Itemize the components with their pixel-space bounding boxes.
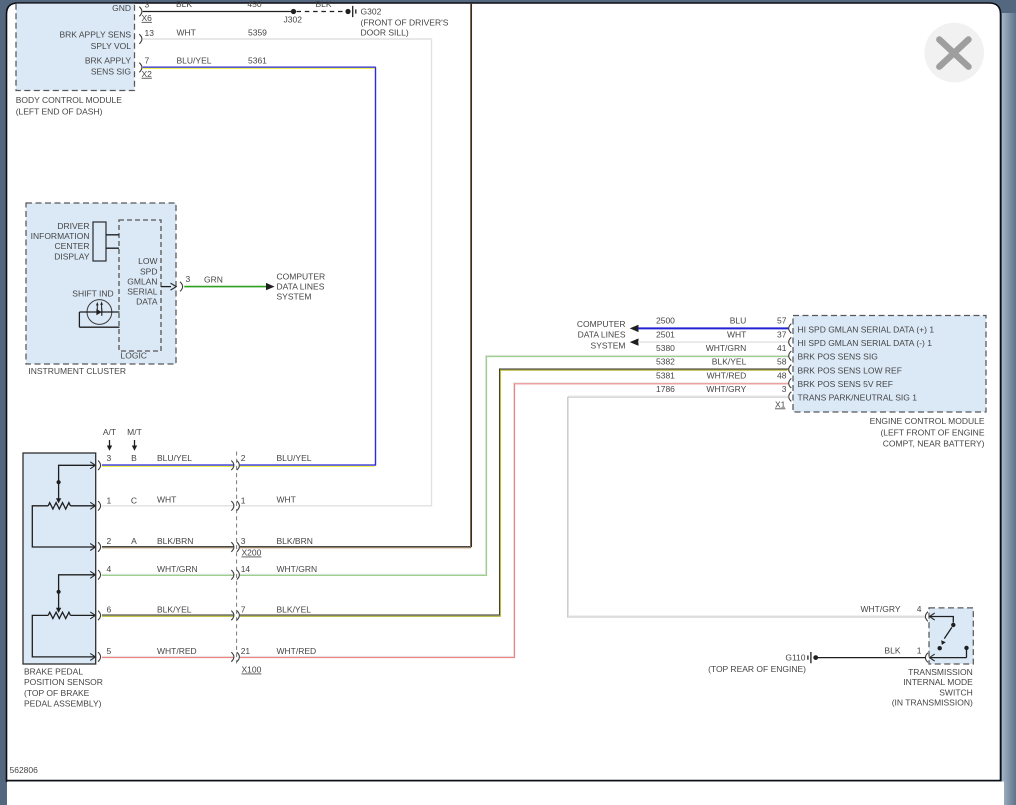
svg-text:X100: X100 bbox=[242, 665, 262, 675]
svg-text:DATA: DATA bbox=[136, 297, 158, 307]
svg-text:5381: 5381 bbox=[656, 370, 675, 380]
svg-text:HI SPD GMLAN SERIAL DATA (+) 1: HI SPD GMLAN SERIAL DATA (+) 1 bbox=[798, 324, 935, 334]
svg-text:BRK POS SENS SIG: BRK POS SENS SIG bbox=[798, 352, 878, 362]
svg-text:A: A bbox=[131, 536, 137, 546]
splice J302 bbox=[291, 9, 296, 14]
X200 pin 1 connector arcs bbox=[231, 495, 296, 511]
BCM pin 3 connector X6 bbox=[139, 0, 152, 23]
svg-text:4: 4 bbox=[107, 564, 112, 574]
svg-text:3: 3 bbox=[782, 384, 787, 394]
svg-text:2: 2 bbox=[107, 536, 112, 546]
svg-text:41: 41 bbox=[777, 343, 787, 353]
cluster pin 3 connector bbox=[171, 274, 191, 291]
ECM pin 58 connector (wire 5382 BLK/YEL) bbox=[656, 357, 902, 376]
svg-text:BLK/YEL: BLK/YEL bbox=[157, 604, 192, 614]
wire BLK G110 to transmission pin 1 bbox=[818, 657, 925, 659]
inline connector X200/X100 dashed body bbox=[236, 452, 238, 664]
svg-text:LOGIC: LOGIC bbox=[121, 351, 147, 361]
svg-text:COMPUTER: COMPUTER bbox=[277, 271, 326, 281]
svg-text:J302: J302 bbox=[284, 14, 303, 24]
svg-text:B: B bbox=[131, 453, 137, 463]
sensor pin 4 row WHT/GRN bbox=[90, 564, 197, 580]
svg-text:58: 58 bbox=[777, 357, 787, 367]
svg-text:WHT: WHT bbox=[177, 27, 196, 37]
svg-text:5359: 5359 bbox=[248, 27, 267, 37]
svg-text:2500: 2500 bbox=[656, 316, 675, 326]
svg-text:BLK: BLK bbox=[315, 0, 331, 9]
svg-text:CENTER: CENTER bbox=[55, 241, 90, 251]
logic sub-block bbox=[119, 220, 161, 361]
X100 pin 7 connector arcs bbox=[231, 604, 311, 620]
svg-text:6: 6 bbox=[107, 604, 112, 614]
body control module (BCM) box bbox=[16, 3, 135, 117]
potentiometer 2 (brake pedal position sensor M/T) bbox=[32, 575, 95, 657]
engine control module (ECM) box bbox=[793, 316, 986, 449]
svg-text:LOW: LOW bbox=[138, 256, 157, 266]
wire WHT/RED X100 pin21 to ECM pin 48 bbox=[240, 383, 789, 658]
transmission internal mode switch box bbox=[892, 608, 974, 708]
svg-text:SHIFT IND: SHIFT IND bbox=[72, 289, 113, 299]
X200 pin 14 connector arcs bbox=[231, 564, 317, 580]
svg-text:5380: 5380 bbox=[656, 343, 675, 353]
svg-text:BLU/YEL: BLU/YEL bbox=[157, 453, 192, 463]
wire BLK/YEL X100 pin7 to ECM pin 58 bbox=[240, 369, 789, 616]
sensor pin 1 row (C) WHT bbox=[90, 495, 176, 511]
svg-text:14: 14 bbox=[241, 564, 251, 574]
svg-text:DATA LINES: DATA LINES bbox=[277, 282, 325, 292]
svg-text:5382: 5382 bbox=[656, 357, 675, 367]
svg-text:21: 21 bbox=[241, 646, 251, 656]
svg-text:BLK/YEL: BLK/YEL bbox=[712, 357, 747, 367]
svg-text:GND: GND bbox=[112, 3, 131, 13]
arrow to computer data lines (row 2501) bbox=[630, 338, 639, 345]
transmission pin 1 connector bbox=[884, 645, 934, 662]
svg-text:BLU/YEL: BLU/YEL bbox=[177, 55, 212, 65]
svg-text:TRANS PARK/NEUTRAL SIG 1: TRANS PARK/NEUTRAL SIG 1 bbox=[798, 393, 918, 403]
svg-text:(LEFT FRONT OF ENGINE: (LEFT FRONT OF ENGINE bbox=[880, 427, 984, 437]
svg-text:PEDAL ASSEMBLY): PEDAL ASSEMBLY) bbox=[24, 699, 102, 709]
wire 2500 BLU to ECM pin 57 bbox=[638, 327, 789, 329]
svg-text:WHT/RED: WHT/RED bbox=[157, 646, 197, 656]
ground G302 bbox=[345, 6, 448, 38]
wire BLK/YEL sensor pin6 to X200 bbox=[102, 614, 234, 616]
wire BLU/YEL sensor pin3 to X200 bbox=[102, 464, 234, 466]
svg-text:INFORMATION: INFORMATION bbox=[31, 231, 90, 241]
wire logic to cluster pin 3 bbox=[161, 286, 171, 288]
svg-text:1: 1 bbox=[107, 496, 112, 506]
svg-text:BRK APPLY SENS: BRK APPLY SENS bbox=[60, 30, 132, 40]
svg-text:BLK: BLK bbox=[884, 645, 900, 655]
svg-text:48: 48 bbox=[777, 370, 787, 380]
svg-text:GMLAN: GMLAN bbox=[127, 276, 157, 286]
switch contacts and blade bbox=[930, 617, 969, 658]
svg-text:57: 57 bbox=[777, 316, 787, 326]
svg-text:SPD: SPD bbox=[140, 266, 157, 276]
svg-text:DATA LINES: DATA LINES bbox=[578, 330, 626, 340]
X100 pin 21 connector arcs bbox=[231, 646, 316, 675]
svg-text:HI SPD GMLAN SERIAL DATA (-) 1: HI SPD GMLAN SERIAL DATA (-) 1 bbox=[798, 338, 933, 348]
X200 pin 3 connector arcs bbox=[231, 536, 313, 558]
svg-text:3: 3 bbox=[186, 274, 191, 284]
transmission pin 4 connector bbox=[861, 604, 935, 621]
svg-text:G110: G110 bbox=[785, 653, 805, 663]
svg-text:BRK POS SENS 5V REF: BRK POS SENS 5V REF bbox=[798, 379, 893, 389]
svg-text:WHT: WHT bbox=[727, 329, 746, 339]
svg-text:1: 1 bbox=[241, 496, 246, 506]
close button bbox=[924, 23, 984, 83]
svg-text:SERIAL: SERIAL bbox=[127, 286, 158, 296]
svg-text:SYSTEM: SYSTEM bbox=[277, 292, 312, 302]
wire BLK/BRN sensor pin2 to X200 bbox=[102, 546, 234, 548]
svg-text:WHT/RED: WHT/RED bbox=[707, 370, 747, 380]
svg-text:1786: 1786 bbox=[656, 384, 675, 394]
sensor pin 5 row WHT/RED bbox=[90, 646, 196, 662]
wire 5361 BLU/YEL from BCM pin 7 to inline connector X200 pin 2 bbox=[143, 67, 376, 466]
svg-text:4: 4 bbox=[917, 604, 922, 614]
svg-text:TRANSMISSION: TRANSMISSION bbox=[908, 667, 973, 677]
svg-text:WHT: WHT bbox=[277, 495, 296, 505]
svg-text:(TOP REAR OF ENGINE): (TOP REAR OF ENGINE) bbox=[708, 664, 806, 674]
svg-text:BRK POS SENS LOW REF: BRK POS SENS LOW REF bbox=[798, 365, 902, 375]
svg-text:INSTRUMENT CLUSTER: INSTRUMENT CLUSTER bbox=[28, 366, 126, 376]
wires display to logic bbox=[106, 235, 119, 248]
svg-text:37: 37 bbox=[777, 329, 787, 339]
svg-text:1: 1 bbox=[917, 645, 922, 655]
svg-text:WHT/GRN: WHT/GRN bbox=[277, 564, 318, 574]
X200 pin 2 connector arcs bbox=[231, 453, 311, 470]
wire 2501 WHT to ECM pin 37 bbox=[638, 341, 789, 343]
svg-text:BLK/YEL: BLK/YEL bbox=[277, 604, 312, 614]
svg-text:BLU: BLU bbox=[730, 316, 747, 326]
svg-text:WHT/RED: WHT/RED bbox=[277, 646, 317, 656]
svg-text:3: 3 bbox=[107, 453, 112, 463]
svg-text:X200: X200 bbox=[242, 548, 262, 558]
ECM pin 37 connector bbox=[777, 329, 932, 348]
wire BLK/BRN X200 pin3 up to top of page bbox=[240, 4, 472, 548]
A/T column header bbox=[103, 427, 116, 451]
M/T column header bbox=[127, 427, 142, 451]
svg-text:5: 5 bbox=[107, 646, 112, 656]
sensor pin 6 row BLK/YEL bbox=[90, 604, 192, 620]
svg-text:7: 7 bbox=[241, 604, 246, 614]
wire LED to logic bbox=[79, 312, 119, 327]
svg-text:WHT/GRY: WHT/GRY bbox=[861, 604, 901, 614]
ECM pin 41 connector (wire 5380 WHT/GRN) bbox=[656, 343, 878, 362]
svg-text:WHT/GRN: WHT/GRN bbox=[157, 564, 198, 574]
svg-text:BODY CONTROL MODULE: BODY CONTROL MODULE bbox=[16, 95, 123, 105]
wire GRN low speed gmlan to computer data lines bbox=[184, 286, 266, 288]
svg-text:GRN: GRN bbox=[204, 275, 223, 285]
svg-text:COMPT, NEAR BATTERY): COMPT, NEAR BATTERY) bbox=[883, 439, 985, 449]
svg-text:C: C bbox=[131, 496, 137, 506]
svg-text:450: 450 bbox=[247, 0, 261, 9]
svg-text:M/T: M/T bbox=[127, 427, 142, 437]
wire 1786 WHT/GRY ECM pin 3 to transmission pin 4 bbox=[568, 396, 926, 617]
sensor pin 3 row (B) BLU/YEL bbox=[90, 453, 192, 470]
potentiometer 1 (brake pedal position sensor A/T) bbox=[32, 465, 95, 547]
svg-text:SENS SIG: SENS SIG bbox=[91, 67, 131, 77]
node computer data lines system (cluster side) bbox=[277, 271, 326, 301]
svg-text:BLK/BRN: BLK/BRN bbox=[157, 536, 193, 546]
wire WHT sensor pin1 to X200 bbox=[102, 505, 234, 507]
arrow to computer data lines (row 2500) bbox=[630, 325, 639, 332]
instrument cluster box bbox=[26, 203, 176, 376]
svg-text:ENGINE CONTROL MODULE: ENGINE CONTROL MODULE bbox=[870, 416, 985, 426]
svg-text:G302: G302 bbox=[361, 6, 382, 16]
svg-text:2: 2 bbox=[241, 453, 246, 463]
svg-text:(TOP OF BRAKE: (TOP OF BRAKE bbox=[24, 688, 90, 698]
svg-text:(LEFT END OF DASH): (LEFT END OF DASH) bbox=[16, 107, 103, 117]
svg-text:A/T: A/T bbox=[103, 427, 116, 437]
svg-text:X6: X6 bbox=[142, 13, 153, 23]
svg-text:BLK/BRN: BLK/BRN bbox=[277, 536, 313, 546]
arrow to computer data lines system bbox=[266, 283, 275, 290]
wire 450 BLK from BCM GND to splice J302 bbox=[143, 11, 294, 13]
svg-text:7: 7 bbox=[145, 56, 150, 66]
svg-text:SPLY VOL: SPLY VOL bbox=[91, 41, 132, 51]
svg-text:X2: X2 bbox=[142, 69, 153, 79]
svg-text:WHT: WHT bbox=[157, 495, 176, 505]
ECM pin 48 connector (wire 5381 WHT/RED) bbox=[656, 370, 893, 389]
svg-text:3: 3 bbox=[241, 536, 246, 546]
svg-text:SYSTEM: SYSTEM bbox=[591, 341, 626, 351]
svg-text:BRK APPLY: BRK APPLY bbox=[85, 55, 131, 65]
svg-text:SWITCH: SWITCH bbox=[939, 687, 973, 697]
svg-text:5361: 5361 bbox=[248, 55, 267, 65]
BCM pin 13 connector bbox=[139, 28, 154, 44]
wire WHT/GRN X200 pin14 to ECM pin 41 bbox=[240, 355, 789, 575]
svg-text:X1: X1 bbox=[775, 399, 786, 409]
node computer data lines system (ECM side) bbox=[577, 319, 626, 351]
svg-text:(FRONT OF DRIVER'S: (FRONT OF DRIVER'S bbox=[361, 17, 449, 27]
svg-text:3: 3 bbox=[145, 0, 150, 10]
wire WHT/GRN sensor pin4 to X200 bbox=[102, 573, 234, 575]
shift indicator LED bbox=[72, 289, 113, 325]
wire 5359 WHT from BCM pin 13 to inline connector X200 pin 1 bbox=[143, 39, 432, 506]
wire WHT/RED sensor pin5 to X100 bbox=[102, 655, 234, 657]
sensor pin 2 row (A) BLK/BRN bbox=[90, 536, 193, 552]
svg-text:DOOR SILL): DOOR SILL) bbox=[361, 28, 409, 38]
svg-text:BRAKE PEDAL: BRAKE PEDAL bbox=[24, 667, 83, 677]
svg-text:(IN TRANSMISSION): (IN TRANSMISSION) bbox=[892, 698, 973, 708]
driver information center display bbox=[31, 221, 106, 261]
svg-text:DRIVER: DRIVER bbox=[57, 221, 89, 231]
ECM pin 57 connector bbox=[777, 316, 934, 335]
svg-text:COMPUTER: COMPUTER bbox=[577, 319, 626, 329]
svg-text:WHT/GRN: WHT/GRN bbox=[706, 343, 747, 353]
svg-text:POSITION SENSOR: POSITION SENSOR bbox=[24, 677, 103, 687]
svg-text:INTERNAL MODE: INTERNAL MODE bbox=[903, 677, 973, 687]
svg-text:562806: 562806 bbox=[10, 765, 39, 775]
svg-text:BLK: BLK bbox=[176, 0, 192, 9]
svg-text:DISPLAY: DISPLAY bbox=[54, 251, 90, 261]
BCM pin 7 connector X2 bbox=[139, 56, 152, 79]
svg-text:13: 13 bbox=[145, 28, 155, 38]
ground G110 bbox=[708, 652, 818, 674]
svg-text:2501: 2501 bbox=[656, 329, 675, 339]
svg-text:WHT/GRY: WHT/GRY bbox=[706, 384, 746, 394]
brake pedal position sensor box bbox=[23, 453, 103, 709]
wire BLK dashed from J302 to G302 bbox=[297, 11, 346, 13]
svg-text:BLU/YEL: BLU/YEL bbox=[277, 453, 312, 463]
ECM pin 3 connector X1 (wire 1786 WHT/GRY) bbox=[656, 384, 917, 410]
